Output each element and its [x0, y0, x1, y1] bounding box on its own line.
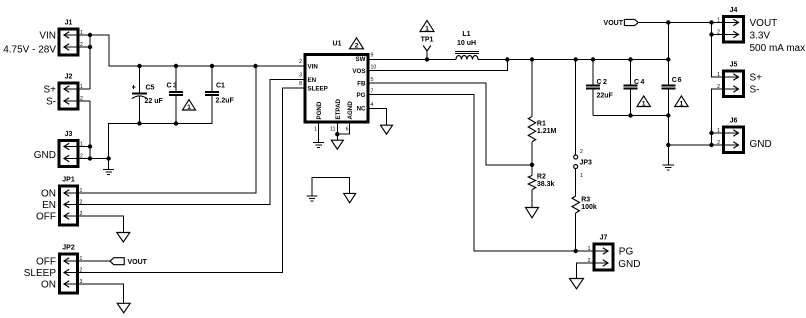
capacitor C1 — [205, 66, 235, 105]
svg-text:SW: SW — [356, 56, 366, 63]
node VIN bus J1.1 — [88, 33, 92, 37]
wire JP1.2 EN to U1 EN — [88, 80, 305, 205]
capacitor C2 — [586, 60, 614, 116]
svg-text:10: 10 — [371, 65, 377, 71]
ground triangle at ETPAD — [331, 140, 343, 149]
wire J4.2 stub — [712, 34, 724, 36]
svg-text:JP3: JP3 — [580, 159, 593, 166]
svg-text:5: 5 — [371, 77, 374, 83]
svg-text:ETPAD: ETPAD — [335, 98, 342, 119]
svg-text:22uF: 22uF — [597, 93, 614, 100]
wire U1 pin1 PGND stub — [318, 122, 320, 142]
svg-text:S-: S- — [46, 97, 56, 108]
node FB divider junction — [530, 163, 534, 167]
svg-text:2: 2 — [80, 153, 83, 159]
connector J5 — [717, 62, 762, 97]
svg-text:C6: C6 — [672, 77, 683, 84]
svg-text:EN: EN — [308, 77, 317, 84]
node C2 top — [591, 57, 595, 61]
svg-text:6: 6 — [346, 127, 349, 133]
svg-text:OFF: OFF — [36, 257, 56, 268]
svg-text:VOUT: VOUT — [604, 20, 624, 27]
svg-text:1: 1 — [580, 173, 583, 179]
test point TP1 — [421, 37, 434, 60]
svg-text:GND: GND — [618, 259, 640, 270]
capacitor C3 — [167, 66, 184, 124]
warning triangle 1 at C6 — [675, 96, 688, 107]
capacitor C4 — [624, 60, 646, 116]
svg-text:3: 3 — [299, 73, 302, 79]
connector J4 — [717, 7, 805, 54]
node J6.1 — [709, 131, 713, 135]
svg-text:C3: C3 — [167, 83, 179, 90]
wire JP2.1 to VOUT flag — [88, 260, 110, 262]
svg-text:1: 1 — [717, 17, 720, 23]
node R1 riser on rail — [530, 57, 534, 61]
svg-text:J6: J6 — [730, 118, 738, 125]
svg-text:VIN: VIN — [308, 63, 319, 70]
svg-text:1: 1 — [642, 100, 646, 107]
svg-text:SLEEP: SLEEP — [24, 268, 57, 279]
wire VOUT rail after L1 — [478, 59, 668, 61]
wire J1 pin1 to input rail — [90, 35, 305, 66]
node VOS junction — [505, 57, 509, 61]
connector J3 — [34, 131, 90, 167]
node C6 top on rail — [666, 57, 670, 61]
svg-text:1: 1 — [717, 128, 720, 134]
wire JP2.3 ON to ground — [88, 284, 124, 303]
node C5 bottom — [137, 121, 141, 125]
ground input earth — [103, 159, 114, 175]
wire U1 pin6 AGND stub — [337, 122, 349, 134]
wire JP2.2 SLEEP to U1 SLEEP — [88, 88, 305, 273]
svg-text:38.3k: 38.3k — [537, 181, 555, 188]
svg-text:1: 1 — [80, 141, 83, 147]
ground earth at PGND — [313, 142, 324, 147]
svg-text:ON: ON — [41, 280, 56, 291]
ground triangle at J7.2 — [570, 279, 584, 289]
svg-text:JP1: JP1 — [62, 177, 75, 184]
svg-text:S+: S+ — [43, 85, 56, 96]
resistor R3 100k — [572, 196, 597, 251]
svg-text:OFF: OFF — [36, 212, 56, 223]
svg-text:7: 7 — [371, 89, 374, 95]
connector JP2 — [24, 245, 88, 294]
wire VOUT flag to J4 — [638, 22, 723, 24]
svg-text:JP2: JP2 — [62, 245, 75, 252]
svg-text:9: 9 — [371, 53, 374, 59]
svg-text:2: 2 — [80, 96, 83, 102]
capacitor C6 — [661, 60, 682, 116]
ground triangle at JP2.3 — [117, 303, 130, 313]
svg-text:3.3V: 3.3V — [750, 31, 771, 42]
ground triangle at R2 — [526, 208, 539, 218]
wire J7.2 to ground — [577, 263, 595, 279]
wire bus J2.2 to J3.1 J3.2 — [89, 101, 91, 159]
wire rail to R1 — [531, 60, 533, 117]
capacitor C5 — [132, 66, 164, 124]
svg-text:1: 1 — [717, 72, 720, 78]
svg-text:R2: R2 — [537, 173, 546, 180]
svg-text:2: 2 — [580, 149, 583, 155]
svg-text:1: 1 — [80, 84, 83, 90]
svg-text:1: 1 — [314, 127, 317, 133]
svg-text:U1: U1 — [333, 41, 342, 48]
node VIN rail to JP1 ON riser — [253, 64, 257, 68]
svg-text:FB: FB — [357, 80, 366, 87]
svg-text:R3: R3 — [581, 197, 590, 204]
svg-text:J4: J4 — [730, 7, 738, 14]
svg-text:1.21M: 1.21M — [537, 128, 557, 135]
wire C6 bottom to output ground — [667, 116, 669, 165]
svg-text:TP1: TP1 — [421, 37, 434, 44]
svg-text:AGND: AGND — [347, 101, 354, 120]
svg-text:3: 3 — [80, 279, 83, 285]
svg-text:1: 1 — [588, 246, 591, 252]
svg-text:2: 2 — [80, 199, 83, 205]
node C1 top — [210, 64, 214, 68]
svg-text:SLEEP: SLEEP — [308, 85, 328, 92]
net flag VOUT at JP2.1 — [110, 258, 148, 266]
warning triangle 1 at C4 — [637, 96, 650, 107]
node PG R3 junction — [574, 249, 578, 253]
inductor L1 10uH — [455, 31, 479, 60]
svg-text:J1: J1 — [65, 20, 73, 27]
wire GND bus J5.2 to J6 — [712, 89, 724, 145]
connector J2 — [43, 74, 90, 110]
svg-text:VOUT: VOUT — [750, 18, 778, 29]
node output ground junction — [666, 143, 670, 147]
svg-text:1: 1 — [80, 30, 83, 36]
svg-text:4.75V - 28V: 4.75V - 28V — [3, 45, 56, 56]
warning triangle 2 at U1 — [350, 38, 364, 50]
svg-text:1: 1 — [80, 256, 83, 262]
node TP1 on SW rail — [425, 57, 429, 61]
svg-text:C2: C2 — [597, 79, 609, 86]
connector JP1 — [36, 177, 88, 226]
svg-text:EN: EN — [42, 200, 56, 211]
node C4 bottom — [628, 113, 632, 117]
svg-text:1: 1 — [187, 104, 191, 111]
svg-text:4: 4 — [371, 102, 374, 108]
resistor R2 38.3k — [528, 165, 554, 208]
ground triangle at NC — [381, 125, 393, 134]
wire PG from U1 to J7 — [368, 95, 594, 252]
net flag VOUT at output — [604, 19, 639, 26]
svg-text:2: 2 — [299, 59, 302, 65]
svg-text:GND: GND — [750, 139, 772, 150]
svg-text:2: 2 — [80, 267, 83, 273]
svg-text:GND: GND — [34, 150, 56, 161]
svg-text:R1: R1 — [537, 120, 546, 127]
wire output cap bottom rail — [593, 115, 668, 117]
connector J6 — [712, 118, 772, 153]
svg-text:S-: S- — [750, 85, 760, 96]
node JP3 riser on rail — [574, 57, 578, 61]
svg-text:J3: J3 — [65, 131, 73, 138]
svg-text:VOS: VOS — [352, 68, 365, 75]
svg-text:1: 1 — [425, 25, 429, 32]
jumper JP3 — [574, 149, 592, 179]
warning triangle 1 at C3 — [183, 100, 196, 111]
op-amp U1 regulator TPS62120 — [299, 41, 376, 133]
svg-text:3: 3 — [80, 211, 83, 217]
node C4 top — [628, 57, 632, 61]
svg-text:22 uF: 22 uF — [145, 98, 164, 105]
svg-text:PG: PG — [357, 92, 366, 99]
wire rail to JP3 — [575, 60, 577, 156]
svg-text:100k: 100k — [581, 204, 597, 211]
svg-text:1: 1 — [680, 100, 684, 107]
node ETPAD AGND junction — [335, 132, 339, 136]
wire U1 NC pin4 to ground — [368, 109, 387, 126]
node C6 bottom rail junction — [666, 113, 670, 117]
svg-text:ON: ON — [41, 189, 56, 200]
svg-text:2: 2 — [80, 42, 83, 48]
svg-text:J2: J2 — [65, 74, 73, 81]
wire U1 pin11 ETPAD stub — [336, 122, 338, 140]
warning triangle 1 at TP1 — [420, 21, 434, 33]
node C3 top — [174, 64, 178, 68]
node C5 top — [137, 64, 141, 68]
wire JP1.1 ON to VIN rail — [88, 66, 256, 193]
wire J6.2 to output ground — [668, 144, 711, 146]
svg-text:PG: PG — [619, 247, 634, 258]
wire SW rail from U1 to L1 — [368, 59, 456, 61]
svg-text:VIN: VIN — [39, 31, 56, 42]
node GND bus J3.2 — [88, 156, 92, 160]
svg-text:L1: L1 — [462, 31, 470, 38]
svg-text:J5: J5 — [730, 62, 738, 69]
node C3 bottom — [174, 121, 178, 125]
wire VOUT riser — [667, 23, 669, 60]
wire bus J1.2 to J2.1 — [89, 35, 91, 89]
resistor R1 1.21M — [528, 117, 556, 165]
node J6.2 — [709, 143, 713, 147]
wire VOS from U1 to rail — [368, 60, 507, 71]
connector J7 — [588, 235, 641, 271]
svg-text:J7: J7 — [600, 235, 608, 242]
node J4.2 — [709, 32, 713, 36]
svg-text:11: 11 — [330, 127, 335, 133]
svg-text:500 mA max: 500 mA max — [750, 43, 806, 54]
ground earth at output — [663, 165, 674, 170]
svg-text:1: 1 — [80, 188, 83, 194]
ground earth at tie left — [306, 196, 317, 201]
svg-text:C4: C4 — [634, 79, 646, 86]
wire JP1.3 OFF to ground — [88, 216, 123, 233]
svg-text:8: 8 — [299, 81, 302, 87]
svg-text:VOUT: VOUT — [128, 259, 148, 266]
wire J3.2 to ground riser — [90, 158, 109, 160]
svg-text:2: 2 — [717, 140, 720, 146]
svg-text:10 uH: 10 uH — [457, 40, 476, 47]
svg-text:C5: C5 — [146, 85, 155, 92]
connector J1 — [3, 20, 90, 56]
node VOUT riser top — [666, 20, 670, 24]
svg-text:NC: NC — [357, 105, 366, 112]
node J4.1 — [709, 20, 713, 24]
wire ground tie bracket — [312, 178, 350, 196]
svg-text:PGND: PGND — [316, 101, 323, 119]
ground triangle at JP1.3 — [117, 233, 130, 243]
wire VOUT bus J4 to J5.1 — [712, 23, 724, 78]
wire input cap bottom rail — [109, 98, 212, 159]
ground triangle at tie right — [344, 193, 356, 202]
wire JP3 to R3 — [575, 169, 577, 197]
node input ground junction — [106, 156, 110, 160]
svg-text:2.2uF: 2.2uF — [216, 98, 235, 105]
wire FB from U1 to divider — [368, 83, 532, 165]
node VIN bus J1.2 — [88, 45, 92, 49]
svg-text:2: 2 — [355, 43, 359, 50]
svg-text:S+: S+ — [750, 73, 763, 84]
svg-text:C1: C1 — [216, 83, 225, 90]
node GND bus J3.1 — [88, 144, 92, 148]
